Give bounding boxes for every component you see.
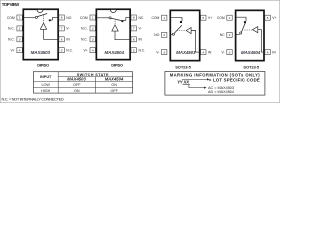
- wire IN to buffer: [44, 29, 59, 39]
- switch lever (closed): [111, 18, 122, 20]
- svg-text:NO: NO: [154, 33, 159, 37]
- switch contact dot NC: [121, 20, 123, 22]
- svg-text:6: 6: [133, 38, 135, 42]
- svg-text:4: 4: [202, 50, 204, 54]
- switch contact dot NO: [49, 19, 51, 21]
- figure border frame: [0, 0, 279, 102]
- pin 6 box: [131, 37, 136, 42]
- switch contact dot NO: [180, 21, 182, 23]
- svg-text:1: 1: [19, 16, 21, 20]
- wire IN to buffer: [115, 31, 131, 40]
- wire contact to pin 8 NC: [123, 18, 130, 21]
- driver buffer triangle: [186, 28, 191, 34]
- svg-text:= LOT SPECIFIC CODE: = LOT SPECIFIC CODE: [209, 77, 260, 82]
- pin 3 box: [227, 50, 232, 55]
- switch pole circle: [35, 16, 37, 18]
- pin 1 box: [162, 15, 167, 20]
- pin 3 box: [162, 50, 167, 55]
- svg-text:DIP/SO: DIP/SO: [37, 63, 49, 68]
- switch lever (open): [37, 14, 47, 17]
- wire contact to pin 8 NO: [51, 18, 58, 21]
- svg-text:MAX4503: MAX4503: [176, 50, 196, 55]
- svg-text:OFF: OFF: [111, 89, 119, 93]
- pin 4 box: [201, 50, 206, 55]
- svg-text:5: 5: [267, 16, 269, 20]
- table row line under SWITCH STATE: [58, 76, 132, 78]
- pin 3 box: [17, 37, 22, 42]
- svg-text:1: 1: [92, 16, 94, 20]
- pin 7 box: [131, 26, 136, 31]
- wire COM to switch pole: [24, 17, 36, 19]
- svg-text:IN: IN: [66, 38, 70, 42]
- notch (pin-1 index): [37, 10, 43, 13]
- svg-text:1: 1: [229, 16, 231, 20]
- table frame: [33, 72, 132, 93]
- svg-text:COM: COM: [80, 16, 88, 20]
- svg-text:4: 4: [267, 50, 269, 54]
- svg-text:V+: V+: [208, 16, 212, 20]
- svg-text:AD = MAX4504: AD = MAX4504: [208, 90, 234, 94]
- svg-text:MAX4504: MAX4504: [105, 50, 125, 55]
- pin 4 box: [90, 48, 95, 53]
- svg-text:V+: V+: [10, 49, 14, 53]
- svg-text:V-: V-: [139, 27, 142, 31]
- pin 5 box: [201, 15, 206, 20]
- svg-text:NO: NO: [66, 16, 71, 20]
- svg-text:3: 3: [92, 38, 94, 42]
- marking box frame: [165, 72, 265, 96]
- switch pole circle: [240, 32, 242, 34]
- svg-text:IN: IN: [272, 50, 276, 54]
- svg-text:MAX4504: MAX4504: [241, 50, 261, 55]
- pin 2 box: [17, 26, 22, 31]
- svg-text:2: 2: [92, 27, 94, 31]
- wire COM to contact: [236, 17, 246, 21]
- svg-text:8: 8: [61, 16, 63, 20]
- pin 8 box: [59, 15, 64, 20]
- driver buffer triangle: [112, 25, 118, 31]
- pin 2 box: [227, 32, 232, 37]
- driver buffer triangle: [40, 23, 46, 29]
- pin 2 box: [90, 26, 95, 31]
- svg-text:DIP/SO: DIP/SO: [111, 63, 123, 68]
- svg-text:ON: ON: [111, 83, 117, 87]
- svg-text:V+: V+: [272, 16, 276, 20]
- svg-text:TOP VIEW: TOP VIEW: [2, 2, 20, 7]
- svg-text:3: 3: [19, 38, 21, 42]
- svg-text:N.C. = NOT INTERNALLY CONNECTE: N.C. = NOT INTERNALLY CONNECTED: [2, 97, 64, 102]
- svg-text:NC: NC: [220, 33, 225, 37]
- svg-text:6: 6: [61, 38, 63, 42]
- svg-text:INPUT: INPUT: [40, 75, 52, 79]
- svg-text:4: 4: [92, 48, 94, 52]
- wire COM to switch pole: [97, 17, 110, 19]
- wire IN to buffer: [258, 30, 264, 52]
- pin 5 box: [59, 48, 64, 53]
- pin 3 box: [90, 37, 95, 42]
- svg-text:MAX4503: MAX4503: [31, 50, 51, 55]
- package body MAX4504 SOT23-5: [236, 10, 264, 60]
- svg-text:COM: COM: [7, 16, 15, 20]
- svg-text:HIGH: HIGH: [41, 89, 51, 93]
- driver buffer triangle: [253, 27, 258, 33]
- svg-text:V-: V-: [156, 50, 159, 54]
- dashed control line: [244, 29, 252, 31]
- svg-text:1: 1: [163, 16, 165, 20]
- svg-text:COM: COM: [217, 16, 225, 20]
- underline XX: [183, 84, 190, 86]
- svg-text:MAX4503: MAX4503: [67, 77, 86, 82]
- package body MAX4503 DIP/SO: [23, 9, 58, 59]
- svg-text:8: 8: [133, 16, 135, 20]
- svg-text:ON: ON: [74, 89, 80, 93]
- notch (pin-1 index): [110, 10, 116, 13]
- svg-text:N.C.: N.C.: [66, 49, 73, 53]
- svg-text:3: 3: [163, 50, 165, 54]
- svg-text:7: 7: [133, 27, 135, 31]
- svg-text:2: 2: [163, 33, 165, 37]
- wire COM to contact: [171, 18, 182, 22]
- switch pole circle: [172, 33, 174, 35]
- svg-text:OFF: OFF: [73, 83, 81, 87]
- wire NC to switch pole: [236, 34, 240, 36]
- switch lever (closed): [241, 22, 245, 32]
- svg-text:V-: V-: [66, 27, 69, 31]
- wire IN to buffer: [191, 31, 200, 53]
- svg-text:MAX4504: MAX4504: [105, 77, 124, 82]
- pin 4 box: [265, 50, 270, 55]
- pin 4 box: [17, 48, 22, 53]
- package body MAX4504 DIP/SO: [96, 9, 130, 59]
- table row line under headers: [33, 81, 132, 83]
- pin 6 box: [59, 37, 64, 42]
- wire NO to switch pole: [171, 33, 173, 35]
- pin 5 box: [265, 15, 270, 20]
- svg-text:7: 7: [61, 27, 63, 31]
- svg-text:NC: NC: [139, 16, 144, 20]
- leader line XX to part codes: [189, 85, 204, 88]
- svg-text:N.C.: N.C.: [139, 49, 146, 53]
- pin 1 box: [90, 15, 95, 20]
- svg-text:5: 5: [202, 16, 204, 20]
- svg-text:COM: COM: [152, 16, 160, 20]
- svg-text:N.C.: N.C.: [8, 27, 15, 31]
- svg-text:3: 3: [229, 50, 231, 54]
- pin 2 box: [162, 32, 167, 37]
- pin 1 box: [17, 15, 22, 20]
- dashed control line: [114, 21, 116, 25]
- arrowhead: [204, 87, 206, 89]
- arrowhead: [207, 78, 209, 80]
- pin 1 box: [227, 15, 232, 20]
- svg-text:2: 2: [229, 33, 231, 37]
- svg-text:V-: V-: [221, 50, 224, 54]
- svg-text:IN: IN: [208, 50, 212, 54]
- switch contact dot NC: [244, 21, 246, 23]
- pin 7 box: [59, 26, 64, 31]
- pin 5 box: [131, 48, 136, 53]
- svg-text:YY XX: YY XX: [177, 80, 190, 85]
- switch pole circle: [109, 17, 111, 19]
- svg-text:IN: IN: [139, 38, 143, 42]
- dashed control line: [177, 30, 186, 32]
- svg-text:N.C.: N.C.: [8, 38, 15, 42]
- svg-text:4: 4: [19, 48, 21, 52]
- svg-text:LOW: LOW: [41, 83, 50, 87]
- table column line MAX4503/MAX4504: [95, 77, 97, 94]
- svg-text:N.C.: N.C.: [81, 38, 88, 42]
- svg-text:N.C.: N.C.: [81, 27, 88, 31]
- table row line between LOW/HIGH: [33, 86, 132, 88]
- dashed control line: [43, 15, 45, 23]
- svg-text:SOT23-5: SOT23-5: [243, 64, 259, 69]
- pin 8 box: [131, 15, 136, 20]
- svg-text:V+: V+: [83, 49, 87, 53]
- leader line YY to lot code: [182, 78, 207, 80]
- package body MAX4503 SOT23-5: [170, 10, 199, 60]
- svg-text:2: 2: [19, 27, 21, 31]
- svg-text:5: 5: [133, 48, 135, 52]
- svg-text:SOT23-5: SOT23-5: [175, 64, 191, 69]
- svg-text:5: 5: [61, 48, 63, 52]
- table column line INPUT/SWITCH STATE: [57, 72, 59, 93]
- switch lever (open): [174, 25, 182, 33]
